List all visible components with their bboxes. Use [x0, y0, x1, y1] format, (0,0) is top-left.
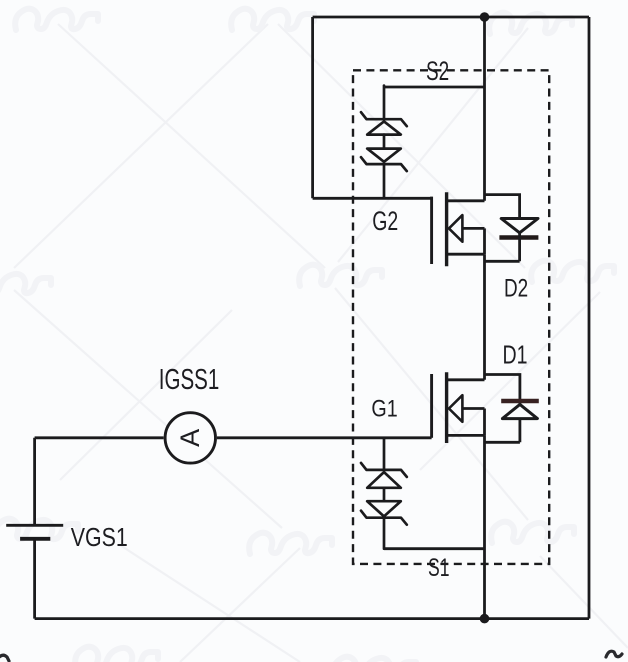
DUT boundary (dashed box)	[353, 70, 549, 564]
wire: G2 gate lead	[313, 197, 432, 200]
diode D2 (upper body diode)	[485, 195, 539, 262]
wire: top rail	[313, 16, 589, 19]
wire: G2 loop vertical	[311, 17, 314, 198]
diode D1 (lower body diode)	[485, 375, 539, 443]
junction node: top (tie to S2 net)	[480, 12, 490, 22]
svg-text:D2: D2	[504, 275, 528, 303]
MOSFET Q1 (lower, gate G1)	[432, 372, 485, 443]
wire: bottom rail	[35, 617, 589, 620]
junction node: bottom (tie to S1 net)	[480, 614, 490, 624]
wire: Q1 source vertical down to bottom rail	[483, 435, 486, 618]
wire: G1 gate lead (ammeter to gate)	[217, 436, 432, 439]
wire: G1 gate lead (source to ammeter)	[35, 436, 164, 439]
svg-text:IGSS1: IGSS1	[159, 364, 220, 396]
wire: VGS1 negative lead	[33, 539, 36, 619]
zener pair Z2 (back-to-back, G2 protection)	[361, 86, 407, 198]
svg-text:A: A	[175, 429, 205, 447]
svg-text:G2: G2	[372, 206, 398, 236]
ammeter IGSS1	[165, 413, 215, 463]
wire: zener pair Z1 bottom link	[384, 547, 485, 550]
wire: mid vertical (Q2 source to Q1 drain)	[483, 254, 486, 380]
wire: right rail	[588, 17, 591, 619]
svg-text:S1: S1	[428, 554, 450, 582]
battery VGS1	[6, 525, 63, 539]
svg-text:S2: S2	[426, 56, 449, 86]
svg-text:D1: D1	[503, 342, 528, 370]
wire: VGS1 positive lead	[33, 438, 36, 526]
zener pair Z1 (back-to-back, G1 protection)	[361, 438, 407, 549]
svg-text:G1: G1	[371, 395, 397, 422]
svg-text:VGS1: VGS1	[71, 524, 128, 552]
wire: S2 drain vertical	[483, 17, 486, 201]
wire: zener pair Z2 top link	[384, 86, 485, 89]
MOSFET Q2 (upper, gate G2)	[432, 192, 485, 266]
